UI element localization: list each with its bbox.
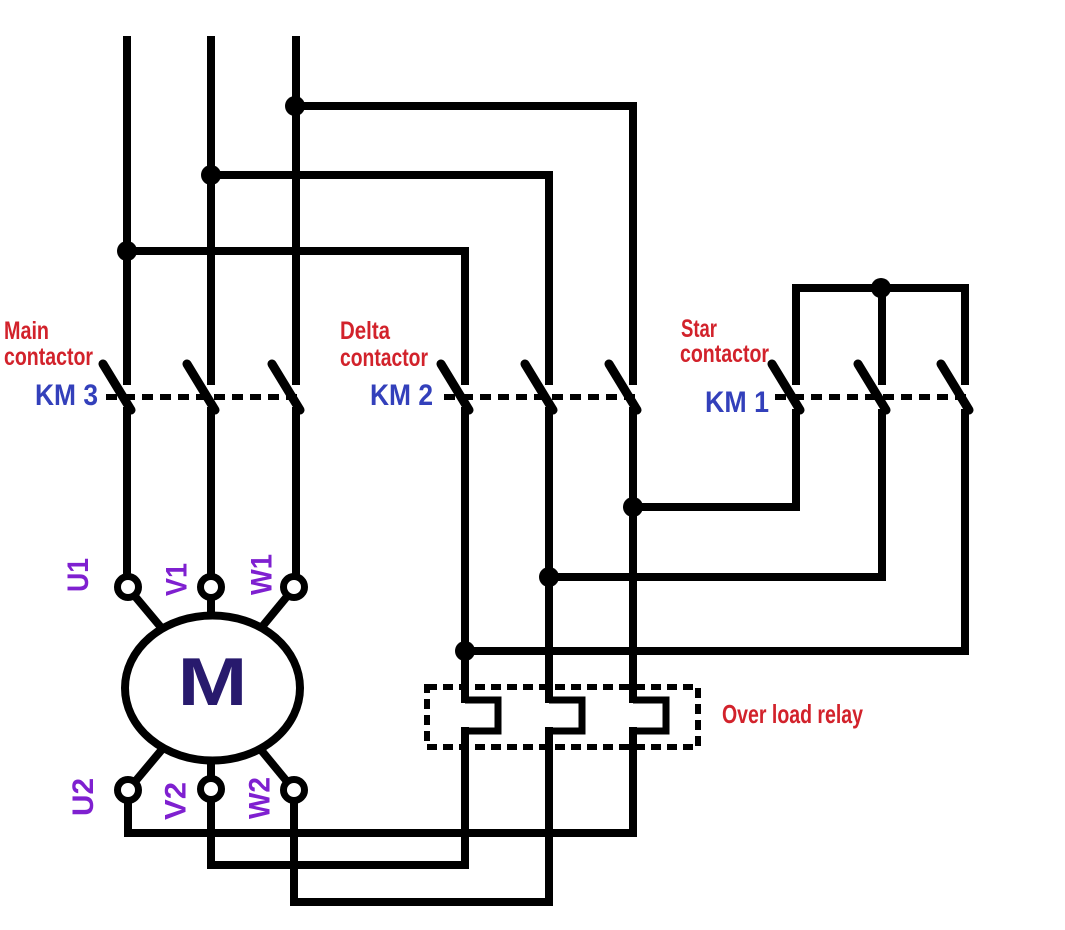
- svg-text:U1: U1: [62, 558, 95, 592]
- terminal V1: [201, 577, 222, 598]
- junction node KM1 pole2 to KM2 pole2: [539, 567, 559, 587]
- svg-text:KM 2: KM 2: [370, 379, 433, 412]
- KM3 pole2 blade: [187, 364, 215, 410]
- svg-text:U2: U2: [67, 778, 100, 816]
- svg-text:contactor: contactor: [340, 344, 428, 372]
- junction node L1-branch: [117, 241, 137, 261]
- contactor KM1 linkage: [775, 394, 972, 400]
- junction node KM1 pole1 to KM2 pole3: [623, 497, 643, 517]
- wire U2 drop, bottom bus to KM2 pole3: [128, 727, 633, 833]
- wire KM3 pole1 output to U1: [123, 407, 131, 576]
- wire L2 supply line: [207, 36, 215, 385]
- junction node L2-branch: [201, 165, 221, 185]
- svg-text:V1: V1: [161, 563, 194, 596]
- svg-text:Main: Main: [4, 317, 49, 345]
- wire KM3 pole2 output to V1: [207, 407, 215, 622]
- terminal W1: [284, 577, 305, 598]
- wire KM1 pole3 riser to KM2 pole1: [465, 409, 965, 651]
- overload heater jog pole1: [465, 700, 498, 731]
- svg-text:Over load relay: Over load relay: [722, 699, 863, 729]
- wire L3 supply line: [292, 36, 300, 385]
- svg-text:contactor: contactor: [680, 340, 769, 368]
- overload heater jog pole2: [549, 700, 582, 731]
- overload relay dashed enclosure: [427, 687, 698, 747]
- svg-text:M: M: [178, 644, 248, 720]
- KM3 pole1 blade: [103, 364, 131, 410]
- wire KM2 pole2 output through overload: [545, 407, 553, 703]
- wire V2 drop, bottom bus to KM2 pole1: [211, 727, 465, 865]
- KM2 pole3 blade: [609, 364, 637, 410]
- wire KM1 pole2 top: [878, 288, 886, 385]
- wire KM2 pole1 output through overload: [461, 407, 469, 703]
- wire W2 stub to motor: [238, 722, 294, 790]
- terminal V2: [201, 779, 222, 800]
- junction node L3-branch: [285, 96, 305, 116]
- terminal W2: [284, 780, 305, 801]
- svg-text:contactor: contactor: [4, 343, 93, 371]
- wire W2 drop, bottom bus to KM2 pole2: [294, 727, 549, 902]
- KM1 pole3 blade: [941, 364, 969, 410]
- contactor KM2 linkage: [444, 394, 642, 400]
- wire KM1 pole2 riser to KM2 pole2: [549, 409, 882, 577]
- wire L2 branch to KM2 pole2: [211, 175, 549, 385]
- wire U2 stub to motor: [128, 722, 185, 790]
- terminal U2: [118, 780, 139, 801]
- motor M1 body: [125, 616, 300, 761]
- svg-text:W2: W2: [244, 777, 277, 819]
- overload heater jog pole3: [633, 700, 666, 731]
- svg-text:Delta: Delta: [340, 317, 391, 345]
- KM3 pole3 blade: [272, 364, 300, 410]
- wire KM1 bracket star point: [796, 288, 965, 385]
- svg-text:KM 1: KM 1: [705, 386, 769, 419]
- junction node star bracket: [871, 278, 891, 298]
- wire U1 stub to motor: [128, 588, 185, 656]
- svg-text:Star: Star: [681, 315, 717, 343]
- wire L1 branch to KM2 pole1: [127, 251, 465, 385]
- wire W1 stub to motor: [238, 588, 294, 656]
- KM2 pole2 blade: [525, 364, 553, 410]
- svg-text:W1: W1: [246, 554, 279, 595]
- wire KM2 pole3 output through overload: [629, 407, 637, 703]
- wire KM1 pole1 riser to KM2 pole3: [633, 409, 796, 507]
- svg-text:V2: V2: [160, 782, 193, 820]
- svg-text:KM 3: KM 3: [35, 379, 98, 412]
- terminal U1: [118, 577, 139, 598]
- KM1 pole2 blade: [858, 364, 886, 410]
- junction node KM1 pole3 to KM2 pole1: [455, 641, 475, 661]
- KM2 pole1 blade: [441, 364, 469, 410]
- wire L1 supply line: [123, 36, 131, 385]
- wire L3 branch to KM2 pole3: [296, 106, 633, 385]
- wire KM3 pole3 output to W1: [292, 407, 300, 576]
- KM1 pole1 blade: [772, 364, 800, 410]
- contactor KM3 linkage: [106, 394, 304, 400]
